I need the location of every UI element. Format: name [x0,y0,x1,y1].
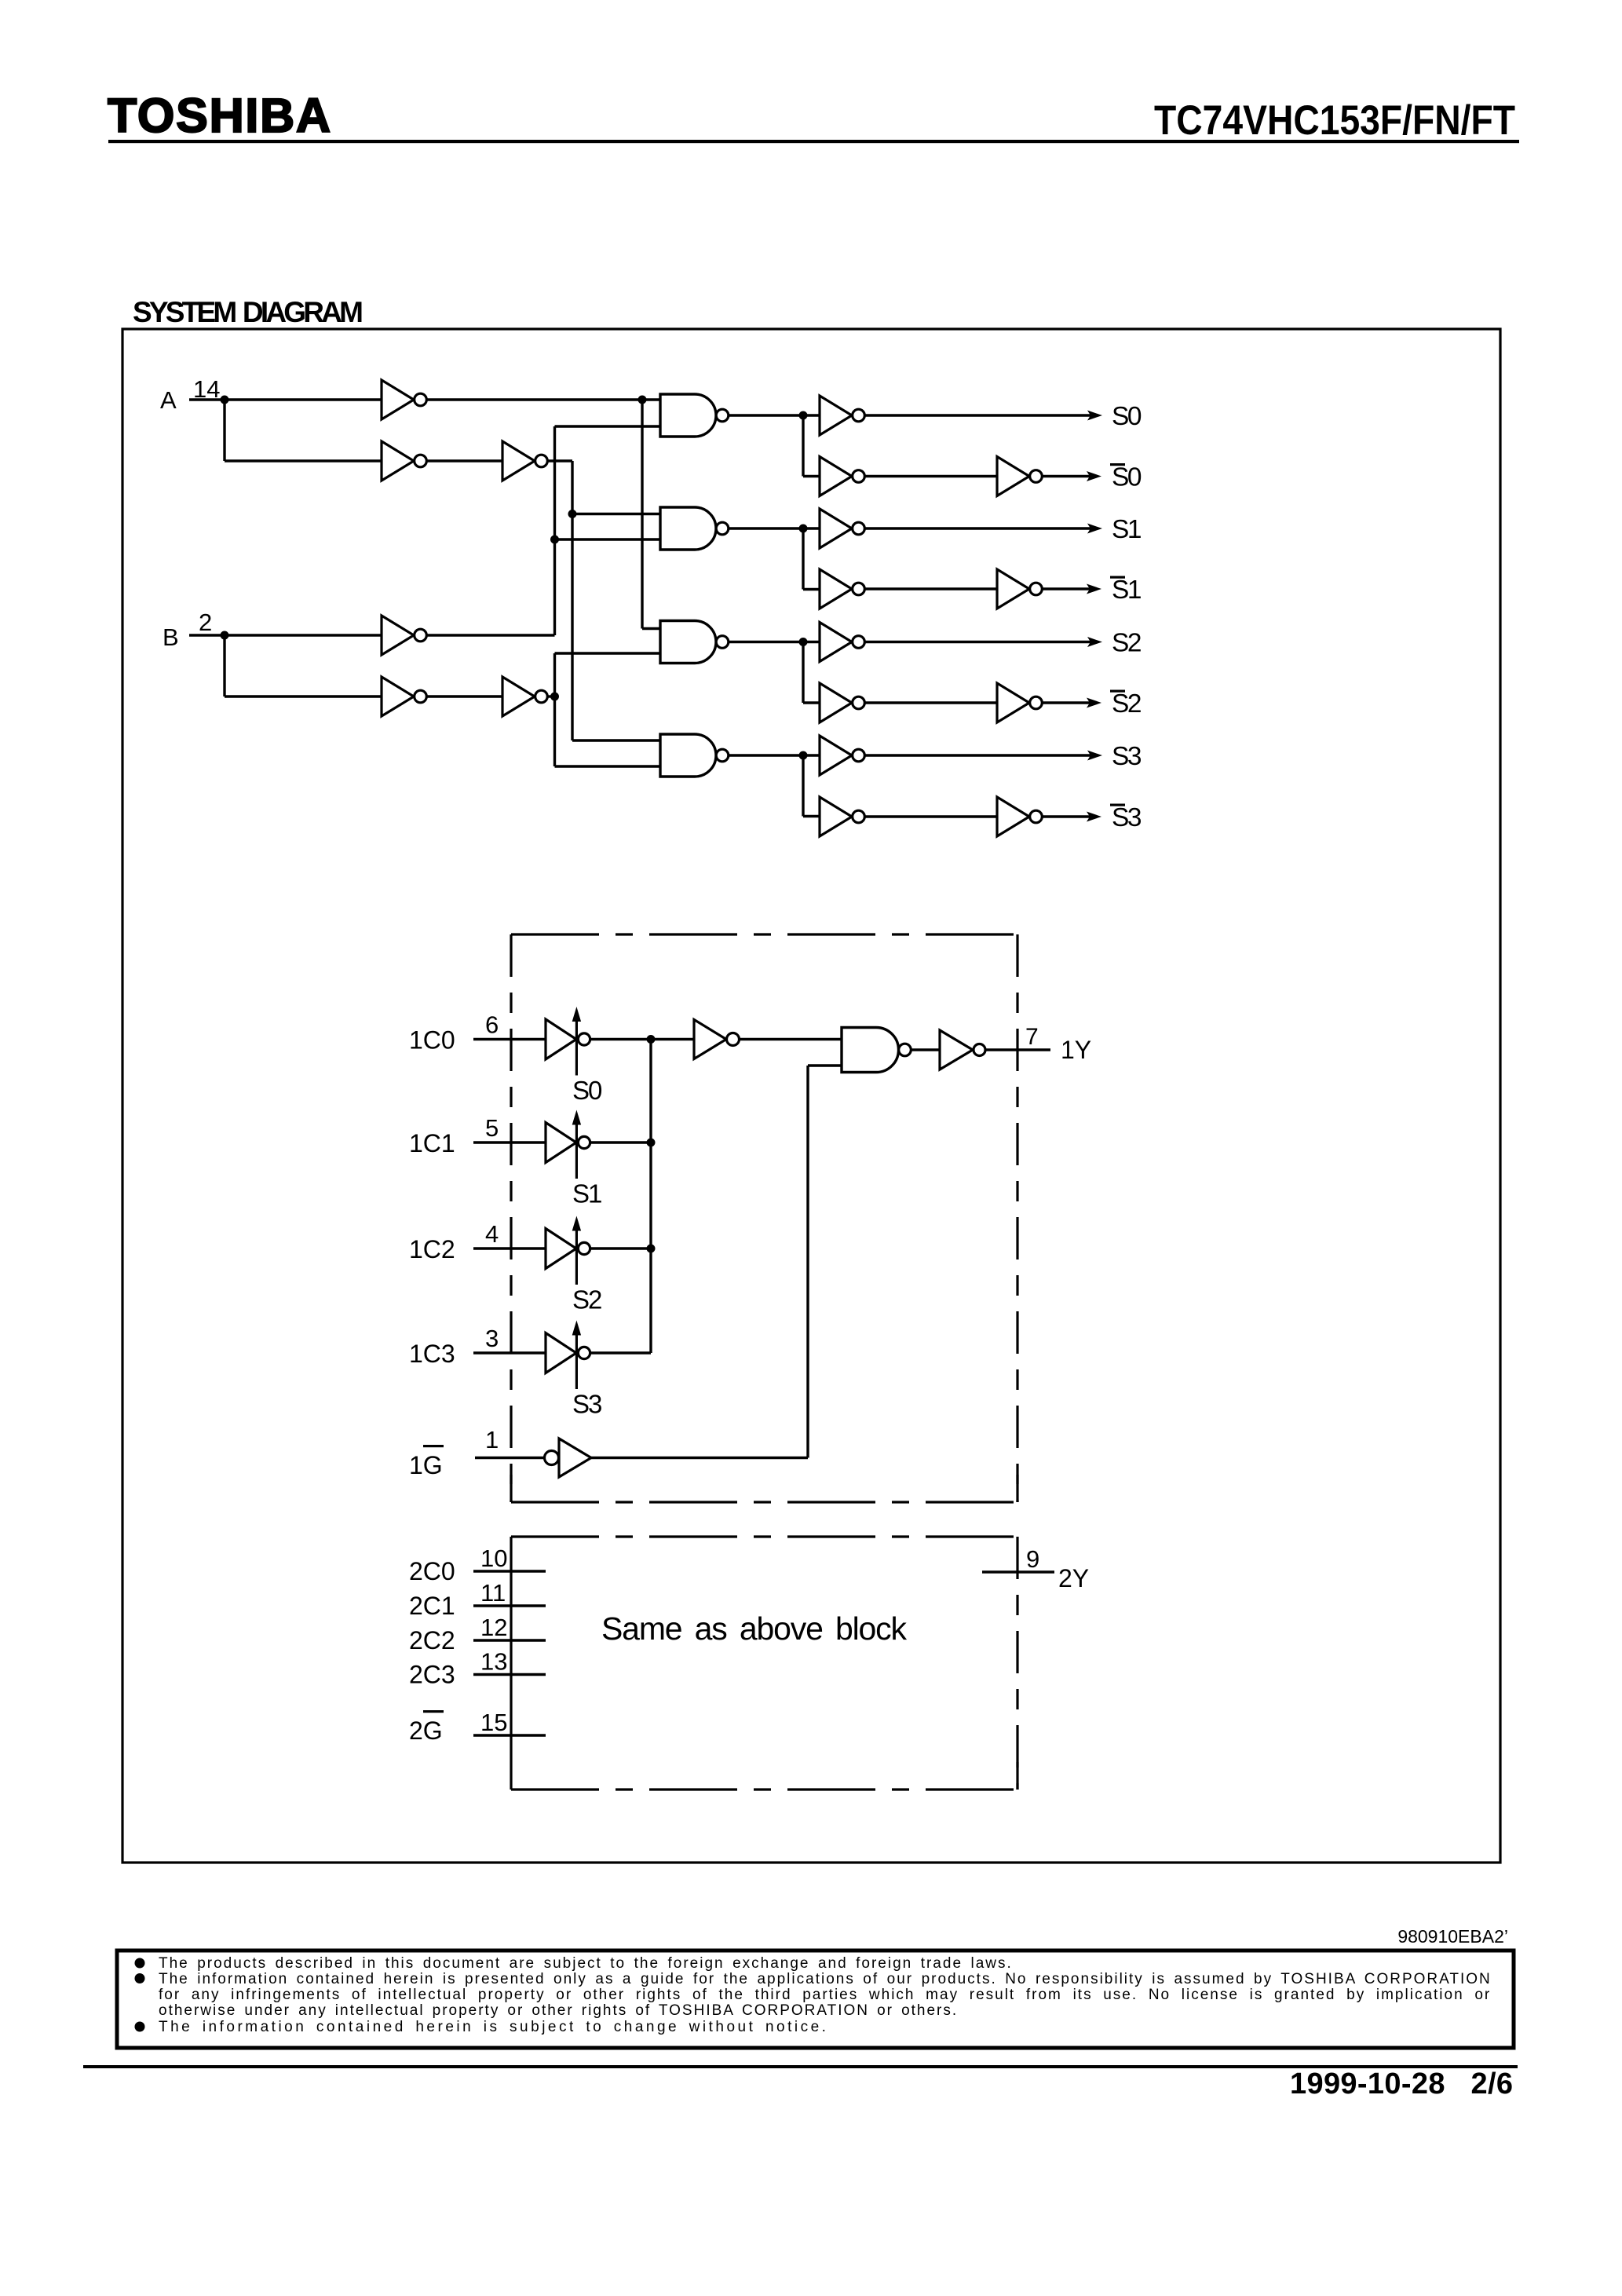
svg-text:S0: S0 [572,1076,602,1105]
svg-text:for any infringements of intel: for any infringements of intellectual pr… [159,1987,1491,2003]
svg-text:A: A [160,386,177,414]
svg-text:5: 5 [485,1114,499,1142]
svg-text:1G: 1G [409,1451,443,1479]
svg-text:1Y: 1Y [1061,1036,1091,1064]
svg-text:TC74VHC153F/FN/FT: TC74VHC153F/FN/FT [1154,97,1515,144]
svg-text:1: 1 [485,1426,499,1453]
svg-text:1C1: 1C1 [409,1129,455,1157]
svg-text:2C3: 2C3 [409,1661,455,1689]
svg-text:S1: S1 [1112,515,1141,544]
svg-text:4: 4 [485,1220,499,1248]
svg-text:1C0: 1C0 [409,1026,455,1055]
svg-text:11: 11 [480,1579,506,1607]
svg-text:S3: S3 [1112,803,1142,832]
svg-text:1C2: 1C2 [409,1235,455,1263]
svg-text:2Y: 2Y [1058,1564,1089,1592]
svg-text:S1: S1 [572,1179,601,1208]
svg-text:otherwise under any intellectu: otherwise under any intellectual propert… [159,2002,958,2019]
svg-text:7: 7 [1025,1024,1039,1050]
svg-text:10: 10 [480,1545,507,1572]
svg-text:S2: S2 [572,1285,601,1314]
svg-text:S3: S3 [572,1390,601,1419]
svg-text:S0: S0 [1112,402,1142,431]
svg-text:3: 3 [485,1325,499,1352]
svg-text:6: 6 [485,1011,499,1039]
svg-text:9: 9 [1026,1545,1039,1573]
svg-text:S2: S2 [1112,629,1141,658]
svg-text:The products described in this: The products described in this document … [159,1955,1013,1972]
svg-text:2: 2 [199,609,212,636]
svg-text:980910EBA2’: 980910EBA2’ [1397,1926,1508,1947]
svg-text:The information contained here: The information contained herein is subj… [159,2019,828,2035]
svg-text:2C1: 2C1 [409,1592,455,1620]
svg-text:15: 15 [480,1709,507,1736]
svg-text:2C0: 2C0 [409,1557,455,1585]
svg-text:S2: S2 [1112,689,1141,718]
svg-text:2G: 2G [409,1717,443,1745]
svg-text:12: 12 [480,1614,507,1641]
svg-text:1999-10-28 2/6: 1999-10-28 2/6 [1290,2067,1513,2100]
svg-text:Same as above block: Same as above block [601,1610,908,1647]
svg-text:S1: S1 [1112,576,1141,605]
svg-text:2C2: 2C2 [409,1626,455,1654]
svg-text:The information contained here: The information contained herein is pres… [159,1971,1492,1987]
svg-text:13: 13 [480,1648,507,1676]
svg-text:S3: S3 [1112,742,1142,771]
svg-text:S0: S0 [1112,463,1142,492]
svg-text:1C3: 1C3 [409,1340,455,1368]
svg-text:SYSTEM DIAGRAM: SYSTEM DIAGRAM [133,296,363,328]
svg-text:TOSHIBA: TOSHIBA [108,89,331,142]
svg-text:B: B [163,623,179,651]
